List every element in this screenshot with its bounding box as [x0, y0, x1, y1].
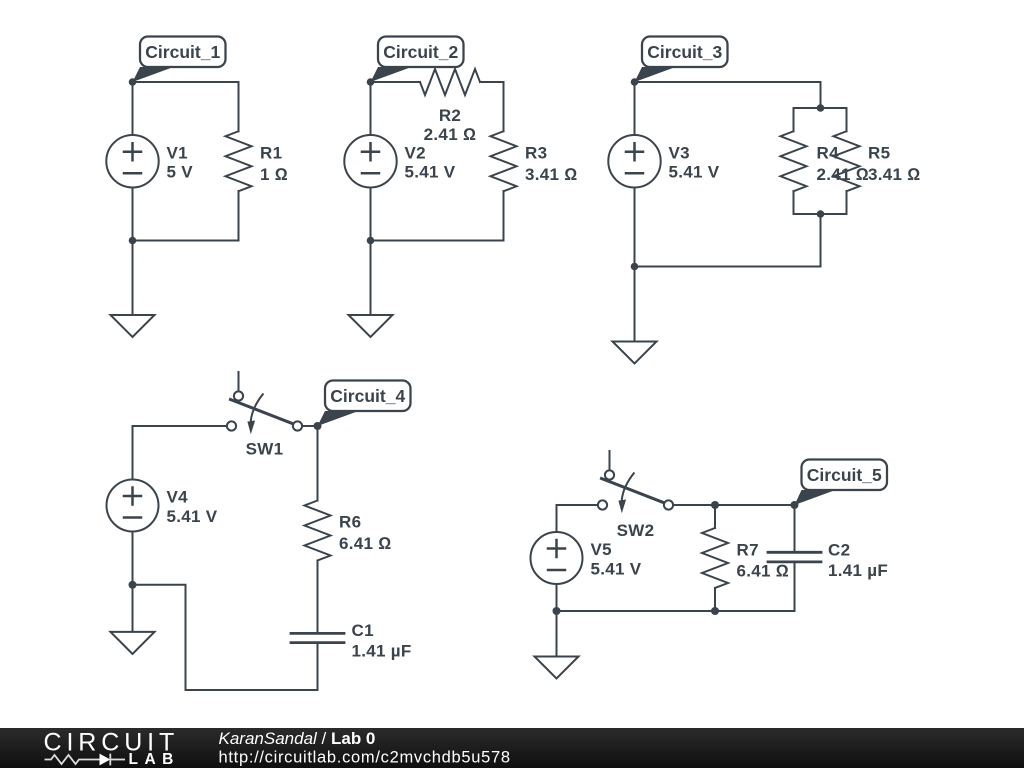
svg-text:3.41 Ω: 3.41 Ω	[525, 165, 578, 184]
svg-text:5.41 V: 5.41 V	[591, 559, 642, 578]
ground circuit 5	[535, 657, 579, 679]
capacitor C2	[768, 552, 821, 562]
svg-text:1.41 µF: 1.41 µF	[828, 561, 888, 580]
svg-text:LAB: LAB	[129, 751, 180, 768]
svg-text:6.41 Ω: 6.41 Ω	[339, 534, 392, 553]
svg-text:V2: V2	[405, 143, 426, 162]
ground circuit 1	[111, 315, 155, 337]
node circuit 3 parallel top	[817, 104, 825, 112]
resistor R7	[702, 528, 728, 588]
wire R6 to C1	[317, 561, 319, 633]
svg-text:2.41 Ω: 2.41 Ω	[424, 125, 477, 144]
wire ground stem circuit 2	[370, 241, 372, 316]
svg-text:http://circuitlab.com/c2mvchdb: http://circuitlab.com/c2mvchdb5u578	[219, 748, 511, 766]
wire ground stem circuit 5	[556, 611, 558, 657]
voltage source V5	[531, 532, 583, 584]
wire right column upper circuit 2	[503, 82, 505, 131]
svg-text:3.41 Ω: 3.41 Ω	[868, 165, 921, 184]
wire parallel top bar circuit 3	[794, 107, 847, 109]
wire top rail right circuit 2	[480, 81, 504, 83]
label flag Circuit_4	[318, 381, 411, 427]
wire switch to C2 circuit 5	[673, 504, 794, 506]
svg-text:1.41 µF: 1.41 µF	[352, 641, 412, 660]
node circuit 4 switch output	[314, 422, 322, 430]
wire R4 bottom lead	[793, 191, 795, 214]
wire right column lower circuit 2	[503, 191, 505, 240]
svg-text:5.41 V: 5.41 V	[405, 163, 456, 182]
ground circuit 4	[111, 632, 155, 654]
resistor R3	[491, 131, 517, 191]
svg-text:C1: C1	[352, 621, 374, 640]
voltage source V3	[608, 135, 660, 187]
wire R5 bottom lead	[846, 191, 848, 214]
svg-text:R3: R3	[525, 143, 547, 162]
node circuit 4 bottom	[129, 581, 137, 589]
svg-text:R5: R5	[868, 143, 890, 162]
label flag Circuit_3	[635, 37, 728, 83]
voltage source V2	[344, 135, 396, 187]
svg-text:SW1: SW1	[246, 440, 284, 459]
svg-text:5.41 V: 5.41 V	[669, 163, 720, 182]
node circuit 2 top	[367, 78, 375, 86]
wire parallel bottom bar circuit 3	[794, 213, 847, 215]
wire top rail left circuit 2	[371, 81, 421, 83]
ground circuit 3	[613, 342, 657, 364]
wire bottom rail circuit 3	[635, 266, 821, 268]
svg-text:Circuit_1: Circuit_1	[145, 42, 220, 62]
node circuit 5 source bottom	[553, 607, 561, 615]
svg-text:R1: R1	[260, 143, 282, 162]
svg-text:Circuit_4: Circuit_4	[330, 386, 405, 406]
svg-text:R7: R7	[737, 540, 759, 559]
voltage source V4	[107, 480, 159, 532]
svg-text:R4: R4	[817, 143, 840, 162]
svg-text:2.41 Ω: 2.41 Ω	[817, 165, 870, 184]
label flag Circuit_5	[795, 460, 888, 506]
svg-text:V4: V4	[167, 488, 189, 507]
wire C2 top lead	[794, 505, 796, 551]
resistor R2	[420, 69, 480, 95]
wire R5 top lead	[846, 108, 848, 131]
node circuit 3 bottom	[631, 263, 639, 271]
wire R7 bottom lead	[714, 588, 716, 611]
svg-text:V5: V5	[591, 540, 612, 559]
logo resistor-diode glyph	[45, 754, 126, 766]
svg-text:Circuit_3: Circuit_3	[647, 42, 722, 62]
node circuit 5 R7 bottom	[711, 607, 719, 615]
switch SW2	[598, 451, 673, 513]
wire right column upper circuit 1	[238, 82, 240, 131]
node circuit 3 parallel bottom	[817, 210, 825, 218]
wire switch to node circuit 4	[302, 425, 317, 427]
wire left column circuit 2	[370, 82, 372, 241]
svg-text:KaranSandal / Lab 0: KaranSandal / Lab 0	[219, 729, 376, 748]
svg-text:Circuit_2: Circuit_2	[383, 42, 458, 62]
svg-text:1 Ω: 1 Ω	[260, 165, 288, 184]
svg-text:V1: V1	[167, 143, 188, 162]
wire bottom rail circuit 1	[133, 240, 239, 242]
node circuit 5 C2 top	[791, 501, 799, 509]
wire C2 bottom lead	[794, 563, 796, 611]
wire left column circuit 3	[634, 82, 636, 267]
voltage source V1	[106, 135, 158, 187]
wire bottom rail circuit 5	[557, 610, 795, 612]
wire left column circuit 4	[132, 426, 134, 585]
svg-text:5.41 V: 5.41 V	[167, 507, 218, 526]
label flag Circuit_2	[371, 37, 464, 83]
resistor R6	[305, 501, 331, 561]
wire right column lower circuit 1	[238, 191, 240, 240]
svg-text:SW2: SW2	[617, 521, 655, 540]
node circuit 3 top	[631, 78, 639, 86]
node circuit 2 bottom	[367, 237, 375, 245]
node circuit 1 bottom	[129, 237, 137, 245]
svg-text:V3: V3	[669, 143, 690, 162]
node circuit 1 top	[129, 78, 137, 86]
wire top center stub circuit 3	[820, 82, 822, 108]
svg-text:Circuit_5: Circuit_5	[807, 465, 882, 485]
svg-text:R2: R2	[439, 106, 461, 125]
wire switch to source circuit 5	[557, 504, 598, 506]
svg-text:5 V: 5 V	[167, 163, 194, 182]
wire C1 bottom return circuit 4	[133, 585, 318, 690]
resistor R4	[781, 131, 807, 191]
wire ground stem circuit 4	[132, 585, 134, 632]
wire R7 top lead	[714, 505, 716, 528]
wire bottom center stub circuit 3	[820, 214, 822, 267]
svg-text:6.41 Ω: 6.41 Ω	[737, 561, 790, 580]
svg-text:C2: C2	[828, 540, 850, 559]
capacitor C1	[291, 633, 344, 642]
wire left column circuit 5	[556, 505, 558, 611]
label flag Circuit_1	[133, 37, 226, 83]
wire R4 top lead	[793, 108, 795, 131]
wire R6 top lead	[317, 426, 319, 501]
node circuit 5 R7 top	[711, 501, 719, 509]
wire ground stem circuit 1	[132, 241, 134, 316]
resistor R5	[834, 131, 860, 191]
switch SW1	[227, 372, 302, 434]
resistor R1	[226, 131, 252, 191]
ground circuit 2	[349, 315, 393, 337]
wire left column circuit 1	[132, 82, 134, 241]
svg-text:R6: R6	[339, 513, 361, 532]
wire switch to source circuit 4	[133, 425, 227, 427]
wire bottom rail circuit 2	[371, 240, 504, 242]
wire ground stem circuit 3	[634, 267, 636, 342]
wire top rail circuit 3	[635, 81, 821, 83]
wire top rail circuit 1	[133, 81, 239, 83]
